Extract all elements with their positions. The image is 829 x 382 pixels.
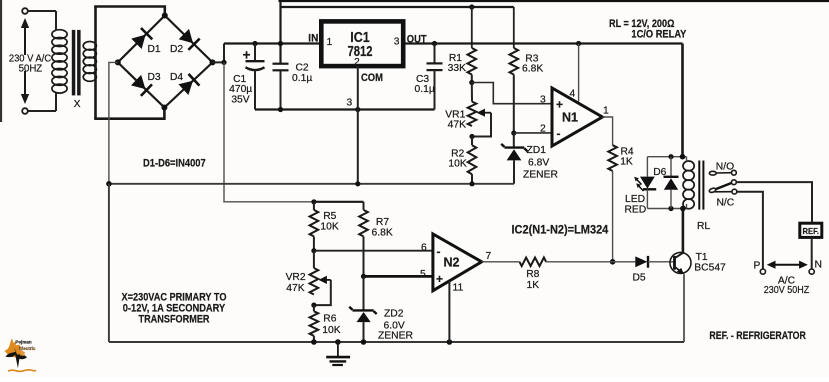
resistor R7 6.8K xyxy=(359,210,368,237)
svg-text:R5: R5 xyxy=(323,211,336,222)
node: C2 top xyxy=(278,41,283,46)
node: junction bridge DC+ xyxy=(221,60,226,65)
svg-text:X: X xyxy=(74,99,81,110)
arrow up (AC source) xyxy=(21,18,29,55)
svg-text:R1: R1 xyxy=(449,53,462,64)
node: bridge top xyxy=(162,13,168,19)
wire: bridge diamond arms xyxy=(118,16,213,108)
svg-text:2: 2 xyxy=(540,124,546,135)
wire: R2 bottom lead xyxy=(471,174,473,184)
svg-text:D6: D6 xyxy=(653,167,666,178)
svg-text:Electric: Electric xyxy=(19,346,36,351)
node: N2 pin11 on ground bus xyxy=(447,339,453,345)
label R7 6.8K xyxy=(372,217,393,239)
svg-text:6.8K: 6.8K xyxy=(372,227,393,238)
svg-text:RED: RED xyxy=(625,204,647,215)
diode D2 xyxy=(178,28,199,49)
transistor T1 BC547 xyxy=(670,252,691,274)
label R1 33K xyxy=(448,53,466,74)
wire: VR1-R2 link xyxy=(471,137,473,146)
relay armature (common) xyxy=(709,180,737,193)
transformer X core xyxy=(72,30,81,96)
node: VR2 bottom junction xyxy=(311,303,316,308)
node: C1 top xyxy=(252,41,257,46)
wire: N/C contact to P terminal xyxy=(737,192,763,269)
resistor R6 10K xyxy=(310,311,319,336)
svg-text:D3: D3 xyxy=(148,72,161,83)
svg-text:3: 3 xyxy=(540,95,546,106)
svg-text:D1-D6=IN4007: D1-D6=IN4007 xyxy=(143,157,206,169)
label R6 10K xyxy=(322,313,340,336)
zener diode ZD1 6.8V xyxy=(501,133,527,184)
capacitor C2 0.1u xyxy=(273,64,289,110)
svg-text:0.1µ: 0.1µ xyxy=(415,84,435,95)
wire: N1 output to R4 xyxy=(602,117,612,145)
node: bridge left xyxy=(115,59,121,65)
node: R5/VR2 junction to N2 pin6 xyxy=(311,248,316,253)
svg-text:33K: 33K xyxy=(448,63,466,74)
svg-text:1: 1 xyxy=(603,106,609,117)
node: R1/VR1 junction to N1 pin3 xyxy=(469,80,474,85)
wire: N2 pin11 to ground bus xyxy=(448,281,450,342)
transformer X secondary winding xyxy=(83,42,96,82)
label X=230VAC PRIMARY TO 0-12V, 1A SECONDARY TRANSFORMER xyxy=(122,292,227,326)
resistor R3 6.8K xyxy=(510,48,519,75)
wire from top terminal to transformer primary xyxy=(28,10,56,12)
node: N1 pin2 junction xyxy=(511,130,516,135)
diode D4 xyxy=(178,74,199,96)
svg-text:T1: T1 xyxy=(696,252,708,263)
wire: LED/D6/coil bottom rail xyxy=(647,208,686,210)
svg-text:1C/O RELAY: 1C/O RELAY xyxy=(631,29,686,41)
node: coil feed top xyxy=(680,154,686,160)
resistor R4 1K xyxy=(608,145,617,171)
node: coil bottom / collector xyxy=(680,206,686,212)
resistor R8 1K xyxy=(520,258,547,267)
svg-text:3: 3 xyxy=(394,37,400,48)
node: bridge bottom xyxy=(161,105,167,111)
relay N/O fixed contact xyxy=(709,170,736,175)
svg-text:D5: D5 xyxy=(633,273,646,284)
wire: OUT bus xyxy=(405,42,683,44)
resistor R2 10K xyxy=(468,145,477,174)
ground xyxy=(326,342,350,365)
relay core bars xyxy=(698,161,704,210)
svg-text:RL: RL xyxy=(697,221,710,232)
svg-text:N/C: N/C xyxy=(717,198,735,209)
wire: R3 bottom to pin2 node xyxy=(513,75,515,134)
svg-text:6.8V: 6.8V xyxy=(528,158,549,169)
label R4 1K xyxy=(620,146,634,167)
node: ZD2 on ground bus xyxy=(361,339,367,345)
wire: R7 bottom to pin5 node xyxy=(363,236,365,276)
node: AC source top terminal xyxy=(22,8,28,14)
svg-text:N2: N2 xyxy=(444,256,460,270)
node: N1 pin4 on OUT bus xyxy=(576,41,581,46)
diode D6 (freewheel) xyxy=(664,157,679,209)
svg-text:D1: D1 xyxy=(148,44,161,55)
wire: capacitor bottom bus xyxy=(255,108,435,110)
svg-text:R6: R6 xyxy=(323,313,336,324)
svg-text:+: + xyxy=(243,48,251,63)
svg-text:10K: 10K xyxy=(448,159,466,170)
svg-text:D2: D2 xyxy=(170,44,183,55)
capacitor C1 470u 35V xyxy=(246,44,265,110)
wire: bridge top edge xyxy=(94,7,165,16)
node: ground symbol stem xyxy=(335,339,341,345)
svg-text:-: - xyxy=(557,127,561,141)
wire: left frame down to ground bus xyxy=(108,184,110,342)
wire: outer top rail (unregulated DC+) xyxy=(279,0,829,2)
label R2 10K xyxy=(448,148,466,169)
svg-text:C2: C2 xyxy=(296,63,309,74)
svg-text:LED: LED xyxy=(625,194,645,205)
diode D3 xyxy=(131,74,152,96)
node: AC source bottom terminal xyxy=(22,108,28,114)
svg-text:7812: 7812 xyxy=(348,44,373,60)
wire: junction to N1 pin 3 xyxy=(472,83,552,104)
wire: junction to N2 pin 6 xyxy=(314,250,433,252)
svg-text:REF. - REFRIGERATOR: REF. - REFRIGERATOR xyxy=(709,330,806,342)
svg-text:N: N xyxy=(815,260,822,271)
svg-text:1K: 1K xyxy=(620,157,633,168)
wire: base node to D5 xyxy=(613,261,636,263)
diode D1 xyxy=(131,28,152,49)
diode D5 xyxy=(635,256,648,268)
svg-text:+: + xyxy=(556,98,563,112)
wire from bottom terminal to transformer primary xyxy=(28,110,56,112)
op-amp N2 xyxy=(433,234,482,291)
svg-text:IC2(N1-N2)=LM324: IC2(N1-N2)=LM324 xyxy=(512,223,609,237)
label R3 6.8K xyxy=(522,53,543,74)
svg-text:35V: 35V xyxy=(231,94,249,105)
svg-text:ZENER: ZENER xyxy=(378,330,413,341)
svg-text:0.1µ: 0.1µ xyxy=(292,73,312,84)
svg-text:5: 5 xyxy=(420,269,426,280)
node: R7/ZD2 junction at N2 pin5 xyxy=(361,274,366,279)
svg-text:D4: D4 xyxy=(170,72,183,83)
node: R5 top xyxy=(311,199,316,204)
wire: bridge left edge (secondary to AC nodes) xyxy=(94,7,97,119)
wire: R1 top lead xyxy=(471,7,473,48)
node: N terminal xyxy=(809,269,814,274)
svg-text:OUT: OUT xyxy=(407,34,427,46)
wire: leftover crop border left edge xyxy=(0,0,2,122)
wire: R5-R7 top rail xyxy=(314,201,364,203)
wire: IN bus xyxy=(224,42,320,44)
arrow: AC mains double arrow xyxy=(767,261,808,269)
wire: pin2 node to N1 xyxy=(514,132,552,134)
wire: ground bus xyxy=(109,341,684,343)
relay RL coil xyxy=(683,157,694,209)
svg-text:47K: 47K xyxy=(448,119,466,130)
VR1 wiper arm xyxy=(472,109,491,137)
svg-text:47K: 47K xyxy=(286,283,304,294)
wire: T1 emitter to ground bus xyxy=(683,274,685,342)
node: D6 top xyxy=(668,154,673,159)
zener diode ZD2 6.0V xyxy=(349,276,377,342)
svg-text:TRANSFORMER: TRANSFORMER xyxy=(139,314,210,326)
resistor R5 10K xyxy=(310,210,319,237)
wire: R5 bottom lead xyxy=(313,236,315,250)
label ZD1 6.8V ZENER xyxy=(523,145,558,181)
node: VR1 bottom junction xyxy=(469,134,474,139)
svg-text:R8: R8 xyxy=(526,269,539,280)
svg-text:Pejman: Pejman xyxy=(15,340,32,345)
wire: inner top rail to R1/R3 xyxy=(281,6,514,8)
wire: bridge DC+ down to R5/R7 rail xyxy=(224,62,314,201)
node: C3 top xyxy=(432,41,437,46)
label VR2 47K xyxy=(286,272,306,294)
wire: bridge DC- to ground rail xyxy=(109,62,118,183)
node: base node (R4/R8/D5) xyxy=(610,259,616,265)
wire: R3 top lead xyxy=(513,7,515,48)
node: left frame top xyxy=(106,181,112,187)
potentiometer VR2 47K xyxy=(310,268,319,295)
label A/C 230V 50HZ xyxy=(764,276,810,297)
wire: pin5 node to N2 (thick) xyxy=(364,275,433,278)
op-amp N1 xyxy=(552,88,602,146)
label C2 0.1u xyxy=(292,63,312,85)
wire: LED/D6/coil top rail xyxy=(647,156,686,158)
svg-text:230V 50HZ: 230V 50HZ xyxy=(764,285,810,296)
label 230 V A/C 50HZ xyxy=(9,53,52,74)
wire: VR1 top lead xyxy=(471,83,473,102)
refrigerator REF box xyxy=(800,223,822,237)
node: R2 on zero bus xyxy=(469,181,474,186)
wire: common contact to REF xyxy=(736,182,812,222)
wire: N2 output to R8 xyxy=(482,261,520,263)
wire: R4 bottom to base node xyxy=(612,171,614,262)
svg-text:1K: 1K xyxy=(526,280,539,291)
wire: T1 collector to relay xyxy=(682,209,685,253)
op-amp U: voltage regulator IC1 7812 box xyxy=(321,21,403,66)
VR2 wiper arm xyxy=(314,276,331,305)
potentiometer VR1 47K xyxy=(468,102,477,126)
svg-text:3: 3 xyxy=(347,98,353,109)
svg-text:-: - xyxy=(437,245,441,259)
label R5 10K xyxy=(320,211,338,233)
wire: R1 bottom lead xyxy=(471,75,473,83)
svg-text:ZENER: ZENER xyxy=(523,170,558,181)
label VR1 47K xyxy=(445,109,466,130)
node: R1 on inner rail xyxy=(469,4,474,9)
svg-text:1: 1 xyxy=(327,37,333,48)
resistor R1 33K xyxy=(468,48,477,75)
wire: vertical from top rail through IN bus to C2 xyxy=(279,1,281,64)
logo: Pejman Electric (bottom-left watermark) xyxy=(4,338,36,371)
label LED RED xyxy=(625,194,647,216)
svg-text:P: P xyxy=(754,261,761,272)
svg-text:R2: R2 xyxy=(451,148,464,159)
svg-text:BC547: BC547 xyxy=(694,263,726,274)
svg-text:N/O: N/O xyxy=(716,162,734,173)
svg-text:VR2: VR2 xyxy=(286,272,306,283)
label R8 1K xyxy=(526,269,539,291)
LED RED indicator xyxy=(634,157,656,209)
wire: OUT bus down to relay xyxy=(681,44,684,157)
node: D6 bottom xyxy=(668,206,673,211)
svg-text:ZD1: ZD1 xyxy=(527,145,547,156)
wire: D5 to T1 base xyxy=(648,261,675,263)
svg-text:+: + xyxy=(436,272,443,286)
transformer X primary winding xyxy=(52,11,67,111)
wire: N1 pin4 to OUT bus xyxy=(578,44,580,102)
wire: REF box to N terminal xyxy=(811,237,813,269)
node: COM on zero bus xyxy=(355,181,360,186)
svg-text:6: 6 xyxy=(421,243,427,254)
node: P terminal xyxy=(760,269,765,274)
svg-text:10K: 10K xyxy=(320,222,338,233)
wire: zero-volt bus xyxy=(109,183,514,185)
svg-text:N1: N1 xyxy=(562,111,578,125)
label C1 470u 35V xyxy=(229,74,252,105)
label C3 0.1u xyxy=(415,74,435,95)
svg-text:50HZ: 50HZ xyxy=(19,63,43,74)
svg-text:REF.: REF. xyxy=(803,226,820,236)
wire: bridge DC+ to IN bus xyxy=(213,44,225,63)
wire: bridge bottom edge xyxy=(94,108,164,119)
svg-text:10K: 10K xyxy=(322,325,340,336)
relay N/C fixed contact xyxy=(715,189,737,194)
svg-text:ZD2: ZD2 xyxy=(384,309,404,320)
svg-text:11: 11 xyxy=(453,283,464,294)
label T1 BC547 xyxy=(694,252,726,273)
node: R6 on ground bus xyxy=(311,339,317,345)
svg-text:COM: COM xyxy=(361,72,383,84)
node: C2 bottom xyxy=(278,107,283,112)
wire: COM column xyxy=(357,66,359,184)
node: bridge right xyxy=(210,59,216,65)
wire: R8 to base node xyxy=(546,261,613,263)
svg-text:7: 7 xyxy=(486,251,492,262)
label ZD2 6.0V ZENER xyxy=(378,309,413,342)
arrow down (AC source) xyxy=(21,71,29,104)
svg-text:6.8K: 6.8K xyxy=(522,64,543,75)
node: COM on cap bus xyxy=(355,107,360,112)
svg-text:4: 4 xyxy=(570,89,576,100)
svg-text:IN: IN xyxy=(308,33,318,45)
svg-text:R7: R7 xyxy=(376,217,389,228)
capacitor C3 0.1u xyxy=(427,44,443,110)
